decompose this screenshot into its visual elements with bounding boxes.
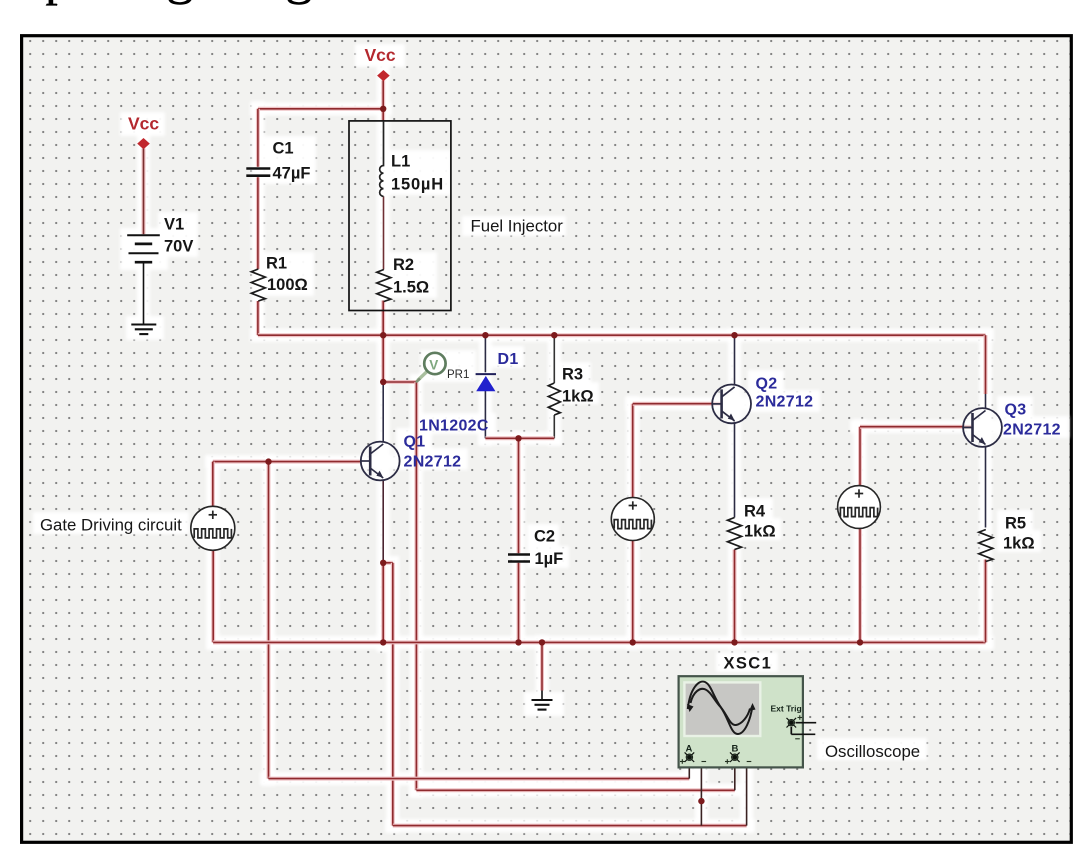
- svg-text:1kΩ: 1kΩ: [562, 388, 594, 406]
- svg-text:B: B: [732, 744, 739, 755]
- wire V2 to Q1 base: [213, 460, 361, 464]
- wire Q1 emitter down to junction: [382, 480, 384, 563]
- inductor L1: [380, 121, 444, 196]
- resistor R4: [728, 503, 776, 550]
- cropped text descender "p": [46, 0, 58, 6]
- label Oscilloscope: [825, 742, 920, 761]
- cropped text descender "g" (second): [288, 0, 311, 5]
- wire V3 bottom lead: [631, 540, 635, 642]
- svg-text:R1: R1: [266, 255, 287, 273]
- wire D1 branch vertical: [484, 335, 486, 438]
- wire V3 top to Q2 base: [633, 404, 723, 498]
- scope terminal B: [730, 752, 740, 762]
- resistor R3: [548, 366, 593, 415]
- svg-text:Fuel Injector: Fuel Injector: [471, 217, 564, 236]
- wire V4 bottom lead: [858, 528, 862, 642]
- scope Ext Trig terminal and pins: [787, 718, 817, 734]
- wire scope A- drop: [694, 757, 702, 825]
- svg-text:2N2712: 2N2712: [756, 394, 814, 411]
- svg-text:47µF: 47µF: [273, 165, 311, 183]
- svg-text:Oscilloscope: Oscilloscope: [825, 742, 920, 761]
- transistor Q2 2N2712: [712, 376, 813, 424]
- wire ground-symbol branch: [540, 642, 544, 699]
- wire rail to Q3 collector: [984, 335, 988, 409]
- pulse source V4: [838, 486, 881, 529]
- ground rail y=642: [213, 640, 985, 644]
- power symbol Vcc (left): [128, 114, 159, 150]
- capacitor C2: [508, 528, 563, 569]
- svg-text:1N1202C: 1N1202C: [419, 418, 489, 435]
- wire node at (383,109) to C1 branch: [258, 109, 383, 167]
- wire rail to scope B-: [393, 757, 747, 825]
- resistor R5: [979, 515, 1035, 562]
- transistor Q3 2N2712: [963, 402, 1061, 447]
- probe PR1: [416, 353, 469, 382]
- wire V2 bottom lead to ground rail: [213, 550, 220, 642]
- svg-text:V1: V1: [164, 216, 184, 234]
- battery V1: [127, 216, 193, 263]
- fuel injector box: [349, 121, 563, 311]
- svg-text:R3: R3: [562, 366, 583, 384]
- wire Q2 emitter to R4: [734, 422, 736, 518]
- wire R5 to ground rail: [984, 560, 988, 643]
- wire R4 to ground rail: [733, 550, 737, 643]
- svg-text:L1: L1: [391, 153, 410, 171]
- svg-text:R5: R5: [1005, 515, 1026, 533]
- svg-text:Q3: Q3: [1005, 402, 1027, 419]
- ground (mid circuit): [532, 700, 553, 710]
- wire Q2 collector stub: [734, 335, 736, 385]
- svg-text:C1: C1: [273, 140, 294, 158]
- wire probe node jog: [383, 380, 416, 384]
- svg-text:C2: C2: [534, 528, 555, 546]
- svg-text:150µH: 150µH: [391, 176, 444, 194]
- svg-text:Q2: Q2: [756, 376, 778, 393]
- capacitor C1: [246, 140, 310, 183]
- wire rail to scope B+: [416, 762, 734, 791]
- wire Vcc1 to V1 battery: [142, 149, 146, 235]
- wire C1 to R1: [256, 177, 260, 269]
- svg-text:1kΩ: 1kΩ: [744, 523, 776, 541]
- svg-text:Gate Driving circuit: Gate Driving circuit: [40, 516, 182, 535]
- wire R1 to bottom rail: [256, 301, 260, 335]
- svg-text:V: V: [429, 358, 438, 373]
- wire D1/R3 bottom link y=438: [485, 436, 554, 440]
- svg-text:Ext Trig: Ext Trig: [771, 704, 802, 714]
- pulse source V2 (gate drive): [40, 506, 235, 550]
- svg-text:70V: 70V: [164, 238, 193, 256]
- wire Q1 collector stub: [382, 382, 384, 442]
- ground (under V1): [131, 325, 156, 335]
- wire probe node down to scope B+ rail: [414, 382, 418, 790]
- svg-text:1.5Ω: 1.5Ω: [393, 279, 429, 297]
- wire Vcc2 down to fuel-injector box: [381, 81, 385, 121]
- svg-text:1kΩ: 1kΩ: [1003, 535, 1035, 553]
- scope terminal A: [685, 752, 695, 762]
- diode D1 1N1202C: [419, 351, 519, 435]
- resistor R1: [251, 255, 307, 301]
- cropped text descender "g" (first): [169, 0, 192, 5]
- svg-text:XSC1: XSC1: [724, 655, 773, 673]
- svg-text:1µF: 1µF: [535, 550, 564, 568]
- svg-text:2N2712: 2N2712: [1003, 422, 1061, 439]
- svg-text:Q1: Q1: [404, 434, 426, 451]
- svg-text:2N2712: 2N2712: [404, 454, 462, 471]
- svg-text:D1: D1: [498, 351, 519, 368]
- pulse source V3: [611, 498, 654, 541]
- svg-text:100Ω: 100Ω: [267, 276, 308, 294]
- svg-text:Vcc: Vcc: [365, 45, 396, 65]
- wire emitter junction to ground rail: [381, 563, 385, 643]
- wire V1 to ground: [143, 263, 145, 324]
- resistor R2: [377, 256, 429, 301]
- wire emitter jog to scope B- rail: [383, 563, 393, 826]
- oscilloscope XSC1: [679, 655, 803, 768]
- wire node 438 down to C2: [517, 438, 521, 553]
- wire R3 branch leads: [553, 335, 555, 438]
- power symbol Vcc (top middle): [365, 45, 396, 81]
- wire rail to scope A+: [269, 762, 690, 779]
- wire gate node down to scope A+ rail: [267, 462, 271, 779]
- wire V4 top to Q3 base: [860, 427, 971, 486]
- wire V2 top lead: [211, 462, 215, 507]
- svg-text:Vcc: Vcc: [128, 114, 159, 134]
- wire C2 to ground rail: [517, 563, 521, 643]
- transistor Q1 2N2712: [361, 434, 462, 481]
- wire Q3 emitter to R5: [985, 446, 987, 528]
- svg-text:R2: R2: [393, 256, 414, 274]
- wire L1 to R2 (inside box): [383, 196, 385, 269]
- wire R2 to main rail: [381, 301, 385, 383]
- main collector rail y=335: [258, 333, 986, 337]
- svg-text:R4: R4: [744, 503, 766, 521]
- svg-text:PR1: PR1: [447, 369, 469, 381]
- svg-text:A: A: [686, 744, 693, 755]
